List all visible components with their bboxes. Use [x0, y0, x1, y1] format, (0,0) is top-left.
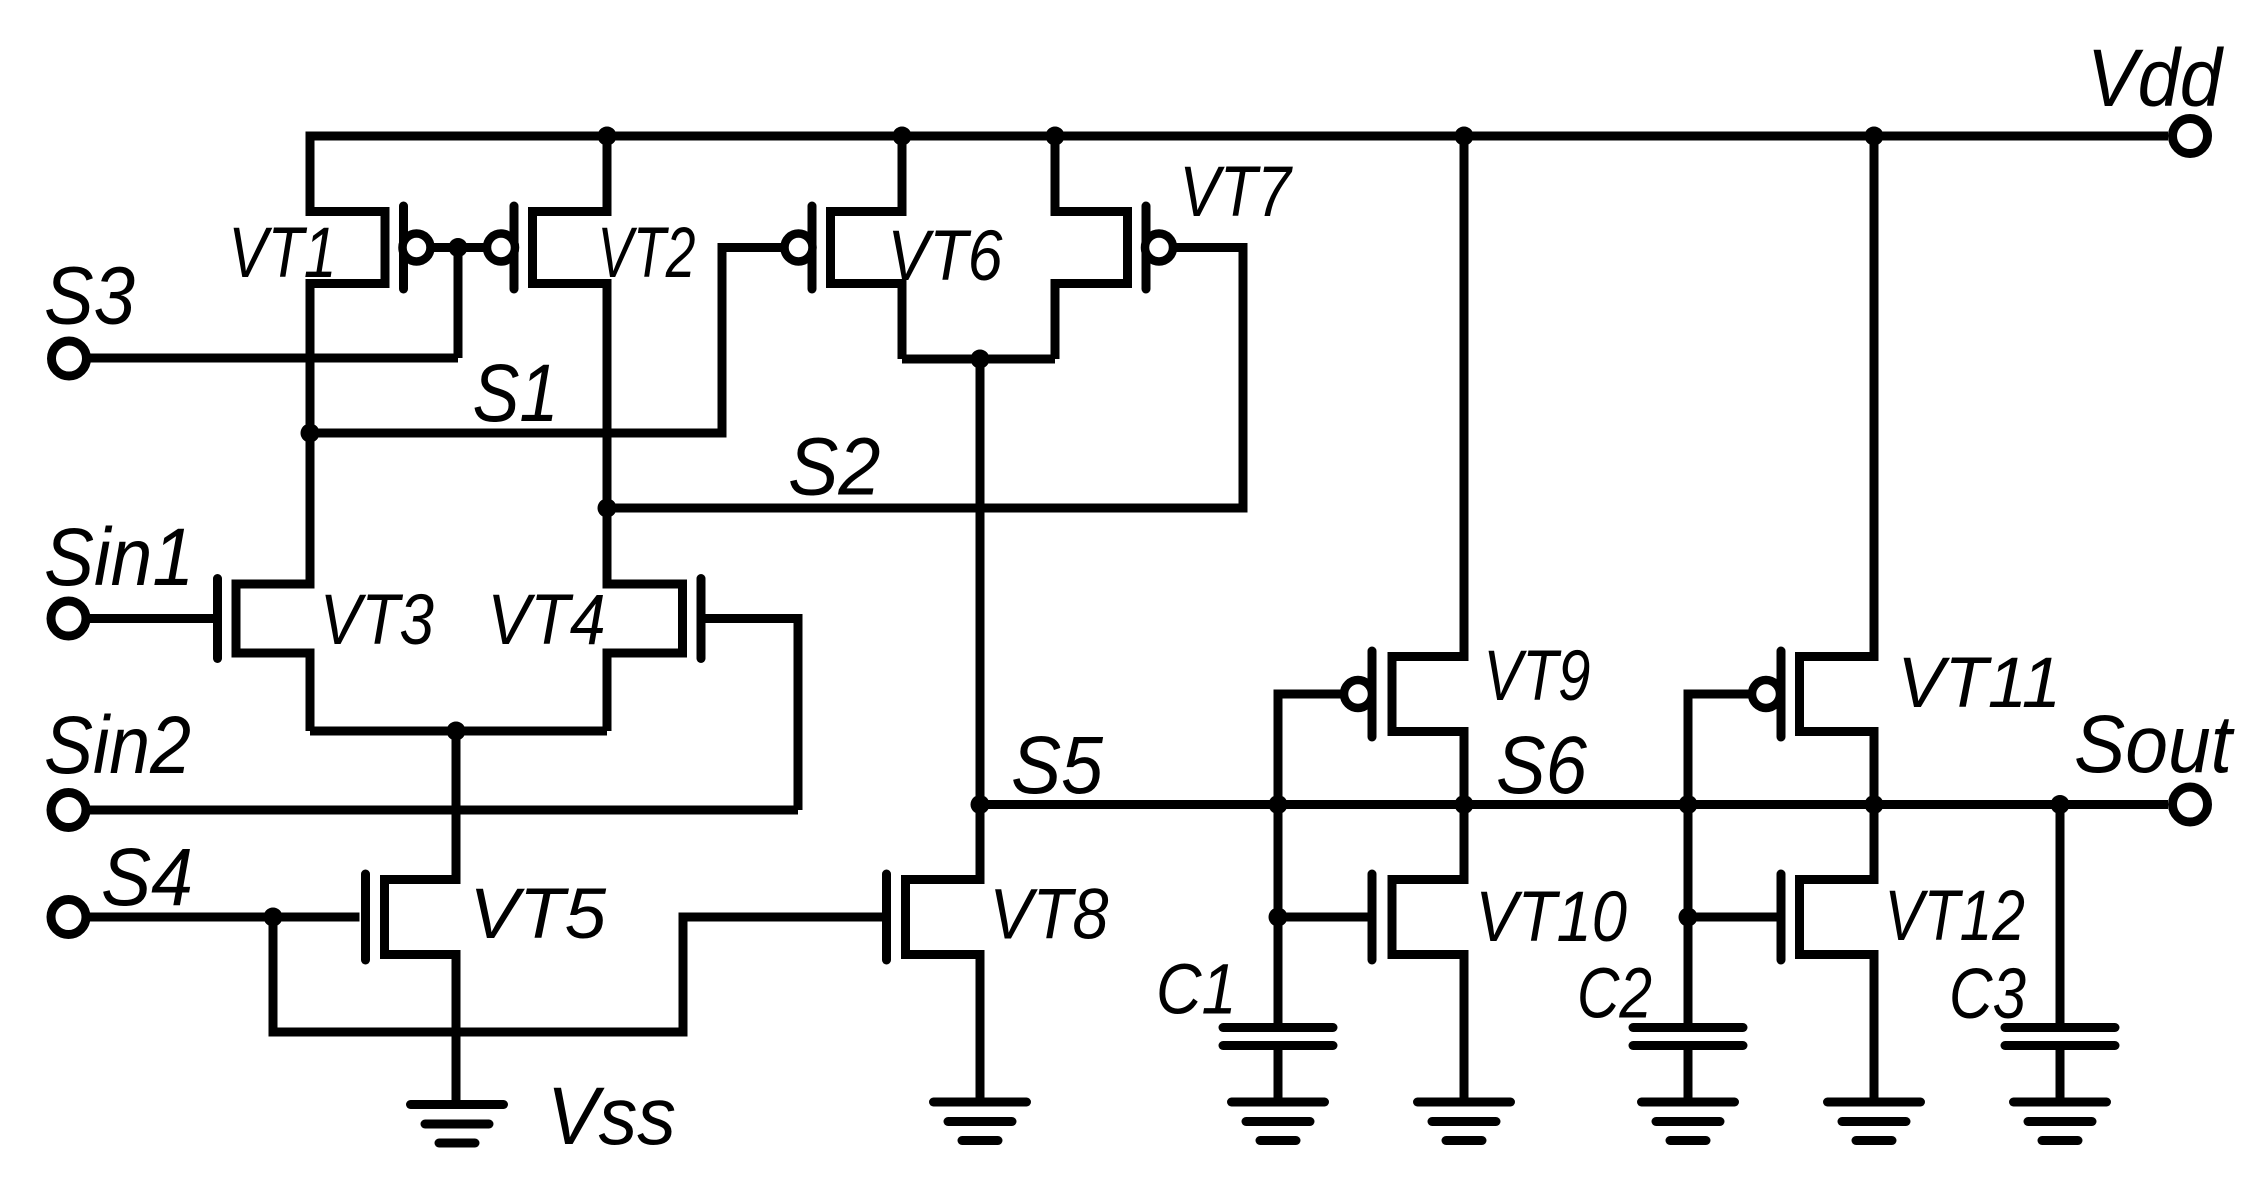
svg-text:Sin1: Sin1 — [44, 512, 194, 603]
transistor VT1 (PMOS) — [306, 206, 431, 289]
terminal Sin1 — [51, 601, 86, 636]
junction VT11-VT12 drains / Sout — [1865, 795, 1884, 814]
wire VT11 drain to Sout to VT12 drain — [1870, 732, 1879, 880]
svg-text:S6: S6 — [1496, 720, 1587, 811]
terminal S3 — [52, 341, 87, 376]
ground Vss (VT5 source) — [411, 1105, 504, 1144]
svg-text:VT4: VT4 — [488, 581, 606, 660]
wire VT9 drain to node S6 to VT10 drain — [1460, 732, 1469, 880]
junction VT6-VT7 drains — [971, 350, 990, 369]
junction VT12 gate / C2 — [1679, 908, 1698, 927]
wire Vdd rail — [310, 136, 2168, 212]
junction node S6 — [1455, 795, 1474, 814]
wire tail link VT3-VT4 — [310, 727, 607, 736]
wire C2 bottom to ground — [1684, 1050, 1693, 1098]
wire VT6 drain down — [898, 284, 907, 360]
junction node S5 — [971, 795, 990, 814]
capacitor C1 — [1223, 1028, 1333, 1046]
junction VT1-VT2 gates / S3 — [449, 238, 468, 257]
svg-text:VT6: VT6 — [888, 217, 1003, 296]
svg-text:VT11: VT11 — [1898, 644, 2062, 723]
wire S4 to VT8 gate (feedback loop) — [273, 917, 882, 1032]
wire S4 input — [86, 913, 360, 922]
wire Sout to C3 — [2056, 805, 2065, 1024]
svg-text:VT5: VT5 — [470, 875, 607, 954]
svg-text:C1: C1 — [1156, 951, 1237, 1030]
svg-text:S3: S3 — [44, 251, 135, 342]
wire node S5-S6-Sout — [980, 800, 2168, 809]
junction node S1 — [301, 424, 320, 443]
junction diff pair tail — [447, 722, 466, 741]
wire VT9 gate riser / C1 column — [1278, 694, 1342, 1023]
junction Sout / C3 — [2051, 795, 2070, 814]
junction rail / VT11 source — [1865, 127, 1884, 146]
svg-text:VT1: VT1 — [229, 214, 337, 293]
junction VT10 gate / C1 — [1269, 908, 1288, 927]
wire VT7 drain down — [1051, 284, 1060, 360]
ground VT8 source — [934, 1102, 1027, 1141]
transistor VT10 (NMOS) — [1372, 874, 1469, 960]
wire VT4 source down — [603, 653, 612, 731]
svg-text:C3: C3 — [1949, 955, 2026, 1034]
transistor VT4 (NMOS) — [603, 579, 702, 659]
wire VT12 gate — [1688, 913, 1777, 922]
terminal Sin2 — [51, 793, 86, 828]
svg-text:VT2: VT2 — [598, 214, 696, 293]
wire C1 bottom to ground — [1274, 1050, 1283, 1098]
wire VT11 gate riser / C2 column — [1688, 694, 1750, 1023]
svg-text:VT10: VT10 — [1476, 878, 1628, 957]
transistor VT2 (PMOS) — [487, 206, 612, 289]
svg-text:C2: C2 — [1577, 955, 1652, 1034]
wire VT10 gate — [1278, 913, 1369, 922]
wire VT9 source to rail — [1460, 136, 1469, 657]
wire Sin1 input — [86, 614, 213, 623]
wire gate node to S3 — [454, 248, 463, 359]
ground C2 — [1642, 1102, 1735, 1141]
junction S4 / feedback — [264, 908, 283, 927]
transistor VT8 (NMOS) — [887, 874, 985, 960]
svg-text:VT12: VT12 — [1885, 877, 2026, 956]
wire VT2 source to rail — [603, 136, 612, 212]
capacitor C2 — [1633, 1028, 1743, 1046]
wire VT11 source to rail — [1870, 136, 1879, 657]
wire VT4 gate to Sin2 — [706, 619, 799, 811]
svg-text:S4: S4 — [101, 832, 193, 923]
wire VT6-VT7 drain link — [902, 355, 1055, 364]
wire VT1-VT2 gate link — [417, 243, 502, 252]
transistor VT7 (PMOS) — [1051, 206, 1174, 289]
svg-text:Sin2: Sin2 — [44, 700, 191, 791]
svg-text:VT8: VT8 — [990, 876, 1109, 955]
svg-text:S2: S2 — [788, 422, 881, 513]
wire VT3 source down — [306, 653, 315, 731]
svg-text:S1: S1 — [473, 348, 559, 439]
junction S6 / VT11 gate — [1679, 795, 1698, 814]
wire VT7 source to rail — [1051, 136, 1060, 212]
wire VT8 source to ground — [976, 955, 985, 1099]
wire S3 input — [86, 354, 458, 363]
transistor VT3 (NMOS) — [218, 579, 315, 659]
wire tail to VT5 drain — [452, 731, 461, 880]
wire node S2 to VT7 gate — [607, 248, 1243, 509]
wire C3 bottom to ground — [2056, 1050, 2065, 1098]
wire VT2 drain to VT4 drain (node S2 column) — [603, 284, 612, 585]
wire node S1 to VT6 gate — [310, 248, 785, 434]
wire VT10 source to ground — [1460, 955, 1469, 1099]
svg-text:S5: S5 — [1011, 720, 1103, 811]
transistor VT11 (PMOS) — [1752, 651, 1879, 737]
capacitor C3 — [2005, 1028, 2115, 1046]
wire VT6 source to rail — [898, 136, 907, 212]
wire node S5 column — [976, 359, 985, 880]
svg-text:Vss: Vss — [547, 1071, 676, 1162]
junction node S2 — [598, 499, 617, 518]
wire Sin2 input — [86, 806, 798, 815]
svg-text:VT7: VT7 — [1180, 153, 1294, 232]
terminal Vdd — [2173, 119, 2208, 154]
svg-text:Vdd: Vdd — [2087, 33, 2224, 124]
svg-text:Sout: Sout — [2074, 699, 2235, 790]
ground C3 — [2014, 1102, 2107, 1141]
junction rail / VT2 source — [598, 127, 617, 146]
junction rail / VT6 source — [893, 127, 912, 146]
ground VT10 source — [1418, 1102, 1511, 1141]
junction rail / VT7 source — [1046, 127, 1065, 146]
transistor VT9 (PMOS) — [1344, 651, 1469, 737]
terminal S4 — [51, 900, 86, 935]
junction rail / VT9 source — [1455, 127, 1474, 146]
svg-text:VT9: VT9 — [1484, 637, 1591, 716]
transistor VT6 (PMOS) — [785, 206, 907, 289]
terminal Sout — [2173, 787, 2208, 822]
ground VT12 source — [1828, 1102, 1921, 1141]
wire VT12 source to ground — [1870, 955, 1879, 1099]
transistor VT5 (NMOS) — [366, 874, 461, 960]
svg-text:VT3: VT3 — [320, 581, 434, 660]
wire VT1 drain to VT3 drain (node S1 column) — [306, 284, 315, 585]
wire VT5 source to ground — [452, 955, 461, 1101]
junction S5 / VT9 gate — [1269, 795, 1288, 814]
transistor VT12 (NMOS) — [1781, 874, 1879, 960]
ground C1 — [1232, 1102, 1325, 1141]
